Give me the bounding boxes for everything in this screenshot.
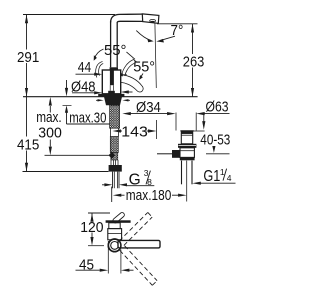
faucet riser tube [110, 21, 112, 67]
plan lever base lower [108, 229, 122, 240]
threaded shank [110, 105, 120, 128]
svg-text:291: 291 [17, 49, 39, 66]
flexible hose [110, 137, 118, 153]
dimension 263 [191, 24, 194, 97]
pop-up rod knob [172, 150, 180, 158]
dimension 291/415 line [25, 15, 28, 172]
hose tubes [110, 160, 112, 165]
7 deg arc [136, 31, 151, 41]
stream extension line [155, 23, 156, 88]
svg-text:max.30: max.30 [69, 109, 106, 126]
plan spout bar [118, 240, 160, 248]
aerator [150, 20, 156, 23]
deck underside segment [63, 104, 72, 106]
55 deg leader right [127, 52, 136, 59]
7 deg leader [160, 36, 175, 40]
max300 bottom reference line [45, 154, 114, 156]
dimension 143 [112, 120, 156, 139]
base flange [98, 94, 124, 97]
drain flange [178, 144, 196, 148]
svg-text:7°: 7° [171, 22, 184, 39]
55 deg second leader [141, 74, 143, 78]
plan lever handle dark bar [106, 220, 131, 223]
dimension 40-53 [202, 114, 229, 154]
dimension max.300 line [49, 97, 52, 155]
svg-text:G1: G1 [203, 168, 220, 185]
spout tip piece [142, 14, 159, 23]
drain tailpipe [181, 161, 183, 185]
svg-text:55°: 55° [133, 59, 155, 76]
lever collar dark bar [110, 67, 118, 70]
spout bend outer [111, 14, 143, 22]
phantom lever upper right [122, 60, 135, 77]
hose connector nuts [109, 165, 122, 172]
dimension 44 [76, 73, 127, 77]
Ø63 leader line [196, 112, 229, 115]
dimension max.180 [112, 187, 187, 202]
svg-text:max.180: max.180 [126, 187, 172, 204]
svg-text:44: 44 [78, 59, 91, 76]
mounting nut [104, 97, 122, 106]
dimension 120 [90, 213, 93, 246]
svg-text:263: 263 [183, 53, 205, 70]
drain lower band [180, 157, 195, 160]
svg-text:45: 45 [79, 256, 94, 273]
dimension 45 [76, 241, 134, 274]
plan axis reference line [88, 245, 104, 247]
drain extension lines [175, 113, 177, 131]
dashed spout swivel up-right [119, 212, 152, 245]
svg-text:40-53: 40-53 [200, 132, 230, 149]
Ø34 leader line [122, 112, 175, 115]
G1 1/4 leader [192, 182, 235, 185]
phantom lever lower right [121, 75, 143, 92]
pop-up rod [157, 153, 172, 155]
G3/8 arrows [102, 183, 154, 186]
G3/8 nipples [112, 172, 114, 189]
plan top reference line [88, 212, 110, 214]
lever front (dark center band) [110, 70, 114, 85]
svg-text:300: 300 [38, 124, 62, 141]
hose node [109, 152, 115, 159]
faucet body [102, 70, 120, 94]
drain plug cap [180, 130, 193, 133]
drain lower body [180, 148, 194, 158]
drain upper body [181, 133, 192, 143]
svg-text:Ø48: Ø48 [71, 79, 96, 96]
nut arrows [98, 99, 104, 101]
svg-text:415: 415 [17, 136, 39, 153]
dimension max.30 [65, 80, 113, 124]
plan body circle [108, 239, 121, 252]
dimension Ø48 [72, 90, 133, 94]
spout bend inner [117, 21, 143, 22]
svg-text:55°: 55° [104, 42, 127, 59]
cap reference line [194, 130, 205, 132]
tube gap [110, 128, 112, 136]
svg-text:4: 4 [227, 173, 232, 183]
svg-text:143: 143 [121, 123, 148, 140]
plan lever alt position [112, 212, 125, 224]
plan lever base upper [109, 223, 120, 229]
svg-text:max.: max. [36, 109, 62, 126]
7 deg horizontal leg [157, 23, 198, 25]
bottom reference line (hose end) [23, 171, 109, 173]
deck line [23, 96, 198, 98]
top reference line [23, 14, 115, 16]
svg-text:120: 120 [80, 219, 103, 236]
55 deg arc left [95, 49, 104, 59]
phantom lever left [96, 62, 104, 78]
svg-text:Ø63: Ø63 [206, 99, 229, 116]
dashed spout swivel down-right [120, 246, 157, 285]
